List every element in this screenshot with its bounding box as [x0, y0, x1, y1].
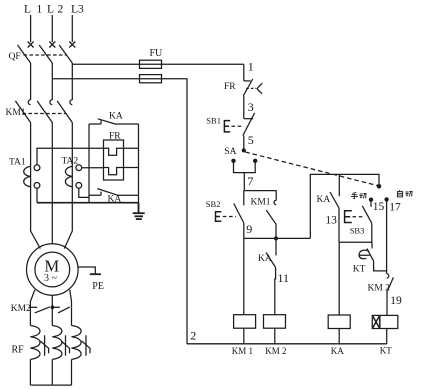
wire phase L3 KM1 to motor	[64, 123, 72, 249]
selector switch SA	[224, 147, 377, 186]
push button SB1 (NC stop)	[206, 113, 254, 136]
wire node 9	[244, 222, 253, 239]
svg-text:2: 2	[58, 4, 64, 16]
time relay contact KT (delayed close)	[353, 242, 387, 274]
ground	[133, 203, 145, 219]
svg-text:TA1: TA1	[9, 157, 26, 167]
push button SB2 (NO start)	[206, 191, 244, 223]
svg-text:KA: KA	[331, 346, 344, 356]
svg-text:KA: KA	[317, 195, 331, 205]
wire node 2 bus	[187, 329, 387, 344]
junction line node 9 row	[244, 237, 310, 239]
RF coil 1	[30, 307, 40, 385]
wire node 19	[387, 291, 402, 316]
svg-text:PE: PE	[92, 281, 104, 292]
contactor KM1 main contacts	[6, 100, 73, 123]
current transformer TA1	[9, 157, 40, 188]
relay contact KA (auto branch)	[317, 174, 340, 208]
svg-text:KM2: KM2	[11, 304, 31, 314]
contact dot 15	[369, 198, 373, 202]
wire right branch riser	[310, 174, 379, 238]
svg-text:SA: SA	[224, 147, 236, 157]
wire phase L2 QF to KM1	[51, 63, 53, 100]
svg-text:3: 3	[248, 100, 254, 114]
svg-text:5: 5	[248, 133, 254, 147]
motor M 3~	[27, 244, 79, 296]
svg-text:QF: QF	[9, 52, 21, 62]
wire 2 (control return)	[162, 79, 188, 344]
svg-text:KA: KA	[109, 112, 123, 122]
RF slider mark 1	[40, 335, 48, 356]
wire phase L2 KM1 to motor	[51, 123, 53, 244]
wire KA branch to KA coil	[338, 242, 340, 315]
wire node 11	[275, 268, 289, 315]
RF slider mark 3	[82, 335, 90, 356]
coil KA	[328, 315, 350, 356]
wire L3 to fuse FU top	[72, 63, 139, 65]
wire L2 to fuse FU bottom	[52, 78, 139, 80]
svg-text:TA2: TA2	[62, 157, 79, 167]
bus of TA secondary circuit	[37, 202, 139, 204]
junction rotor mid	[51, 305, 55, 309]
junction dot	[274, 236, 278, 240]
contactor contact KM2 (NC interlock)	[368, 274, 394, 294]
svg-text:15: 15	[373, 201, 385, 213]
svg-text:11: 11	[278, 271, 290, 285]
svg-text:KT: KT	[353, 265, 366, 275]
wire TA2 secondary top to FR heater	[82, 167, 104, 169]
svg-text:19: 19	[390, 295, 402, 307]
svg-text:3 ~: 3 ~	[44, 273, 58, 284]
svg-text:SB2: SB2	[206, 199, 221, 209]
wire node 17	[387, 201, 401, 273]
svg-text:1: 1	[248, 59, 254, 73]
coil KM1	[232, 315, 256, 356]
frequency-sensitive rheostat RF	[12, 345, 25, 356]
svg-text:13: 13	[325, 215, 337, 227]
svg-text:FU: FU	[150, 48, 164, 59]
SA pole 2 tip	[377, 184, 382, 189]
label manual (hand written 手动)	[351, 192, 367, 198]
ground PE	[78, 267, 104, 292]
node L2	[47, 4, 64, 48]
svg-text:SB1: SB1	[206, 116, 221, 126]
wire node 9 to KM1 coil	[243, 238, 245, 314]
coil KM2	[264, 315, 287, 356]
contactor KM2 rotor shorting contacts	[11, 304, 70, 314]
RF bottom bus	[30, 384, 71, 386]
svg-text:17: 17	[389, 202, 401, 214]
svg-text:L3: L3	[71, 4, 84, 16]
contactor aux contact KM1 (self hold)	[251, 198, 277, 239]
svg-text:KM 1: KM 1	[232, 346, 253, 356]
svg-text:L: L	[47, 4, 54, 16]
wire node 3	[244, 96, 254, 119]
wire phase L1 KM1 to motor	[31, 123, 41, 249]
svg-text:KM 2: KM 2	[265, 346, 286, 356]
svg-text:9: 9	[246, 222, 252, 236]
svg-text:KT: KT	[380, 346, 392, 356]
contact dot 17	[384, 197, 388, 201]
circuit breaker QF	[9, 45, 73, 63]
RF slider mark 2	[61, 335, 69, 356]
wire phase L3 QF to KM1	[71, 63, 73, 100]
svg-text:2: 2	[190, 329, 196, 343]
rotor leads motor to KM2	[30, 290, 34, 308]
node L1	[24, 4, 43, 48]
wire node 5	[244, 133, 254, 148]
label auto (hand written 自动)	[397, 190, 412, 197]
wire TA1 secondary bottom to bus	[36, 188, 38, 202]
wire node 1	[244, 59, 254, 81]
right rail of TA circuit	[138, 124, 140, 203]
thermal relay FR heaters	[104, 132, 139, 181]
node L3	[69, 4, 84, 48]
wire node 13	[325, 208, 339, 242]
relay contact KA (bottom, TA circuit)	[89, 189, 139, 205]
svg-text:KM1: KM1	[251, 198, 271, 208]
svg-text:7: 7	[247, 174, 253, 188]
wire TA2 secondary bottom to left rail	[79, 188, 89, 197]
push button SB3 (NO)	[345, 206, 372, 243]
relay contact KA (to KM2 coil)	[258, 238, 276, 267]
wire phase L1 QF to KM1	[30, 63, 32, 100]
left rail of TA circuit	[88, 124, 90, 203]
relay contact KA (top, TA circuit)	[89, 112, 139, 125]
wire split to KM1 aux	[244, 191, 276, 201]
RF coil 2	[52, 307, 62, 385]
coil KT (time relay)	[372, 315, 398, 355]
thermal relay contact FR (NC)	[224, 79, 262, 96]
wire TA1 secondary top to FR heater	[37, 148, 104, 165]
svg-text:1: 1	[37, 4, 43, 16]
current transformer TA2	[62, 157, 82, 189]
svg-text:SB3: SB3	[350, 225, 365, 235]
svg-text:L: L	[24, 4, 31, 16]
junction line below SB3	[339, 241, 372, 243]
svg-text:FR: FR	[224, 82, 236, 92]
RF coil 3	[72, 307, 82, 385]
svg-text:RF: RF	[12, 345, 25, 356]
fuse FU (top)	[140, 48, 164, 68]
wire node 7	[244, 173, 253, 191]
wire node 15	[371, 201, 385, 213]
wire fuse to node 1	[162, 63, 244, 65]
fuse FU (bottom)	[140, 75, 162, 83]
